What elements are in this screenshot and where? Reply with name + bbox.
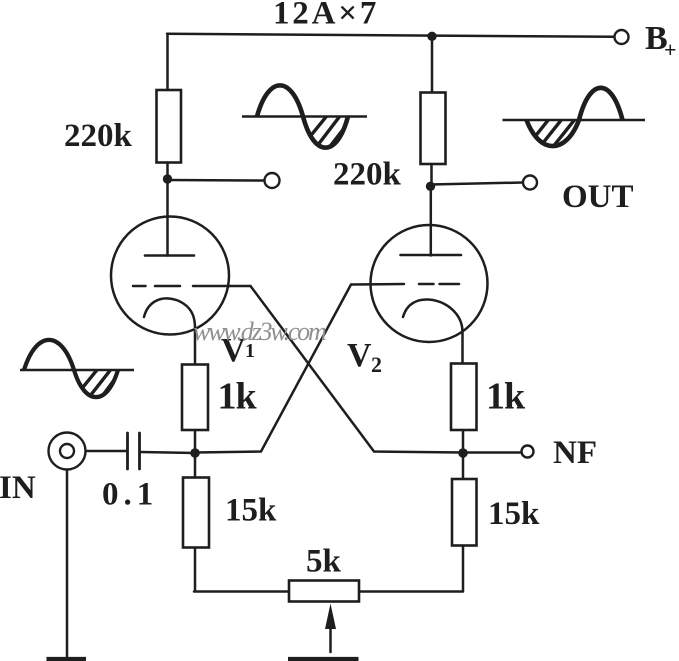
svg-text:www.dz3w.com: www.dz3w.com <box>193 317 326 346</box>
svg-text:15k: 15k <box>225 493 277 529</box>
svg-text:15k: 15k <box>488 496 540 532</box>
svg-text:NF: NF <box>553 435 597 471</box>
svg-text:0.1: 0.1 <box>102 477 158 513</box>
svg-text:220k: 220k <box>333 157 402 193</box>
svg-text:1k: 1k <box>218 376 258 418</box>
svg-text:IN: IN <box>0 470 36 506</box>
svg-text:220k: 220k <box>64 118 133 154</box>
svg-text:+: + <box>664 37 677 62</box>
svg-text:1k: 1k <box>486 376 526 418</box>
svg-text:2: 2 <box>371 352 382 377</box>
svg-text:OUT: OUT <box>562 179 634 215</box>
svg-text:12A×7: 12A×7 <box>273 0 379 32</box>
svg-text:5k: 5k <box>306 544 342 580</box>
svg-text:V: V <box>347 337 372 374</box>
